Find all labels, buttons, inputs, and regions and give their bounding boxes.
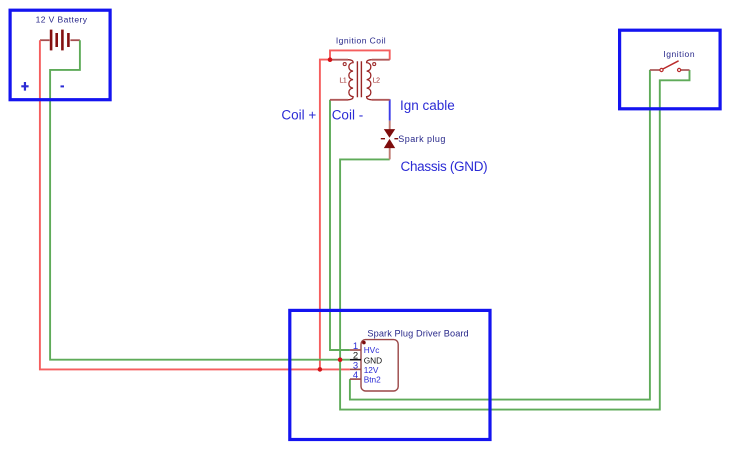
svg-text:Ign cable: Ign cable bbox=[400, 98, 455, 113]
wire ign cable segment (blue) bbox=[389, 99, 391, 120]
pin 4 stub bbox=[350, 378, 361, 380]
wire battery - down and across to pin2 GND (green) bbox=[50, 40, 350, 360]
junction coil+ node bbox=[328, 57, 333, 62]
ignition enclosure box bbox=[620, 30, 721, 109]
svg-text:Spark Plug Driver Board: Spark Plug Driver Board bbox=[367, 329, 468, 339]
pin 1 stub bbox=[350, 349, 361, 351]
transformer T1 ignition coil symbol bbox=[330, 60, 390, 100]
svg-text:Spark plug: Spark plug bbox=[398, 134, 446, 144]
driver board U1 body bbox=[361, 340, 398, 391]
svg-text:Coil +: Coil + bbox=[281, 107, 316, 122]
wire ignition switch left contact to pin4 Btn2 (green) bbox=[350, 70, 650, 400]
switch SW1 ignition symbol bbox=[650, 61, 690, 72]
wire spark plug chassis to GND net and ignition switch right contact (green) bbox=[340, 70, 689, 410]
svg-text:Coil -: Coil - bbox=[332, 107, 364, 122]
battery plus label bbox=[21, 82, 28, 91]
svg-text:HVc: HVc bbox=[364, 345, 380, 355]
battery minus label bbox=[61, 85, 65, 87]
junction 12V net dot bbox=[318, 367, 323, 372]
svg-text:GND: GND bbox=[364, 355, 382, 365]
spark plug SP1 symbol bbox=[381, 129, 398, 148]
wire coil - down to pin1 HVc (green) bbox=[330, 100, 350, 350]
svg-text:Chassis (GND): Chassis (GND) bbox=[401, 159, 488, 174]
wire coil + riser (red) bbox=[320, 60, 330, 370]
svg-text:L1: L1 bbox=[339, 77, 346, 84]
battery enclosure box bbox=[10, 10, 110, 100]
wire battery + down and across to pin3 12V (red) bbox=[40, 40, 350, 369]
pin 2 stub bbox=[350, 359, 361, 361]
svg-text:Ignition: Ignition bbox=[663, 49, 695, 59]
svg-text:Btn2: Btn2 bbox=[364, 375, 381, 385]
svg-text:4: 4 bbox=[353, 370, 358, 381]
driver board enclosure box bbox=[290, 310, 490, 439]
svg-text:Ignition Coil: Ignition Coil bbox=[336, 35, 386, 45]
svg-text:12V: 12V bbox=[364, 365, 379, 375]
pin 1 marker dot bbox=[362, 341, 366, 345]
battery BT1 symbol bbox=[40, 30, 80, 51]
pin 3 stub bbox=[350, 368, 361, 370]
wire spark plug leads (rosy) bbox=[389, 121, 391, 160]
svg-text:12 V Battery: 12 V Battery bbox=[36, 14, 88, 24]
svg-text:L2: L2 bbox=[373, 77, 380, 84]
junction GND net dot bbox=[338, 357, 343, 362]
wire coil top bracket L1+ to L2+ (red) bbox=[330, 50, 390, 59]
